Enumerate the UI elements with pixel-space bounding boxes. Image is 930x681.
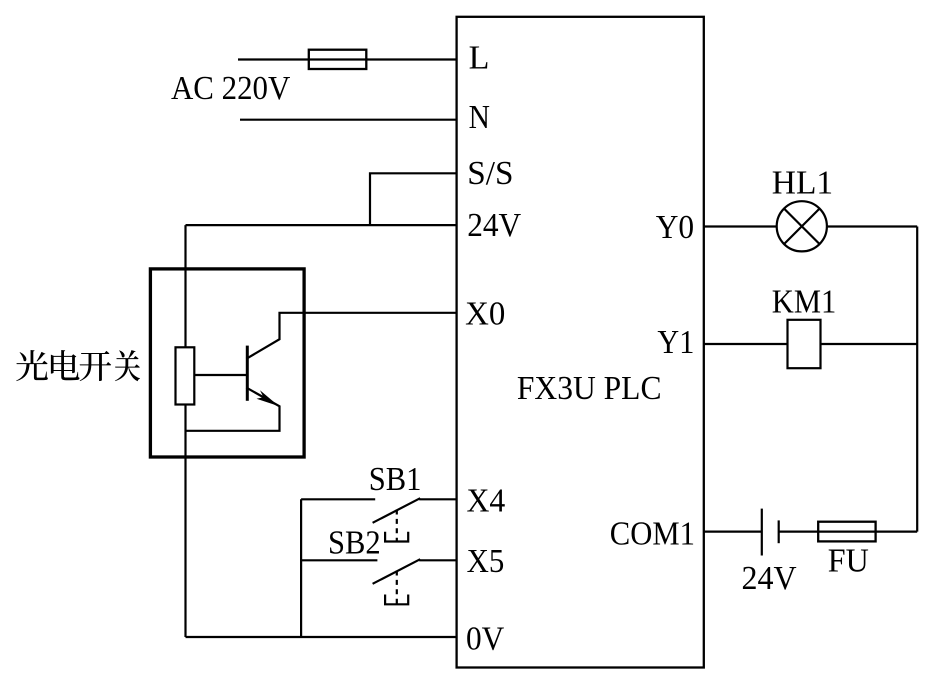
fuse FU — [818, 522, 875, 542]
transistor Q1 body bar — [246, 346, 249, 401]
svg-text:AC 220V: AC 220V — [171, 70, 291, 107]
svg-text:FU: FU — [828, 543, 869, 580]
svg-text:0V: 0V — [466, 621, 505, 658]
svg-text:S/S: S/S — [467, 155, 513, 192]
svg-text:24V: 24V — [467, 207, 521, 244]
label 光电开关 — [16, 350, 140, 381]
resistor (photo sensor element) — [176, 347, 195, 404]
wire Y1 left segment — [704, 343, 788, 345]
PLC box U1 (FX3U PLC) — [457, 17, 704, 668]
wire SB branch vertical — [300, 499, 302, 637]
wire COM1 — [704, 530, 762, 532]
wire 24V horizontal — [186, 224, 457, 226]
svg-text:X0: X0 — [465, 295, 505, 332]
wire S/S to 24V jumper — [370, 173, 457, 225]
battery GB 24V positive plate — [761, 509, 763, 556]
svg-text:Y0: Y0 — [656, 209, 694, 246]
wire L — [238, 58, 457, 60]
wire Y0 left segment — [704, 225, 777, 227]
pushbutton SB1 — [301, 498, 457, 541]
svg-text:24V: 24V — [742, 560, 798, 597]
svg-text:L: L — [469, 40, 490, 77]
photoelectric switch box — [150, 269, 304, 457]
wire sensor to 0V vertical — [184, 405, 186, 638]
battery GB 24V negative plate — [778, 520, 780, 543]
svg-text:FX3U PLC: FX3U PLC — [517, 370, 662, 407]
svg-text:X4: X4 — [467, 483, 506, 520]
wire 0V horizontal — [186, 636, 457, 638]
wire 24V vertical drop to sensor — [184, 225, 186, 347]
svg-text:HL1: HL1 — [772, 165, 833, 202]
emitter arrowhead — [257, 390, 279, 406]
svg-text:X5: X5 — [467, 543, 505, 580]
svg-text:Y1: Y1 — [657, 324, 694, 361]
wire N — [240, 119, 457, 121]
wire Y1 right segment — [821, 343, 918, 345]
wire Y0 right segment — [827, 225, 918, 227]
wire right bus vertical — [916, 227, 918, 532]
svg-text:SB1: SB1 — [369, 461, 422, 498]
transistor Q1 emitter with arrow — [186, 388, 280, 431]
svg-text:SB2: SB2 — [328, 525, 381, 562]
lamp HL1 — [777, 201, 827, 251]
fuse FU1 on L line — [309, 50, 367, 69]
svg-text:KM1: KM1 — [772, 284, 837, 321]
svg-text:COM1: COM1 — [610, 516, 695, 553]
transistor Q1 base wire — [194, 374, 247, 376]
wire battery to right bus through fuse — [779, 530, 918, 532]
svg-text:N: N — [469, 99, 490, 136]
transistor Q1 collector + wire X0 — [246, 313, 456, 359]
contactor coil KM1 — [788, 320, 821, 368]
pushbutton SB2 — [301, 559, 457, 604]
